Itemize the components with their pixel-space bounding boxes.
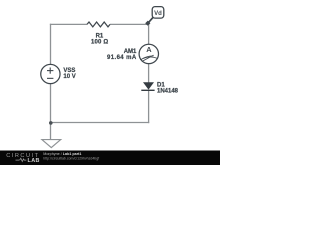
svg-text:Morphyne / Lab1 part1: Morphyne / Lab1 part1 (43, 152, 81, 156)
svg-text:1N4148: 1N4148 (157, 88, 179, 94)
svg-text:100 Ω: 100 Ω (91, 39, 109, 45)
svg-text:91.64 mA: 91.64 mA (107, 55, 137, 61)
svg-text:10 V: 10 V (63, 74, 75, 80)
svg-text:http://circuitlab.com/c/129hvh: http://circuitlab.com/c/129hvhzd4bgf (43, 156, 99, 160)
svg-text:Vd: Vd (154, 11, 162, 17)
svg-text:A: A (146, 45, 152, 54)
svg-text:LAB: LAB (28, 158, 40, 164)
